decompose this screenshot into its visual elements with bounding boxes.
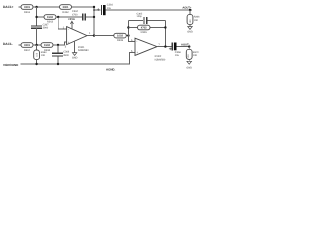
- svg-text:3900: 3900: [63, 54, 69, 57]
- wire feedback line: [56, 16, 94, 18]
- svg-text:3900: 3900: [43, 27, 49, 30]
- wire: [33, 44, 41, 46]
- resistor R370: [186, 49, 199, 59]
- op-amp IC301b: [135, 38, 166, 61]
- capacitor C365: [137, 12, 147, 24]
- svg-text:R367: R367: [24, 49, 31, 52]
- node AOUT+: [189, 9, 191, 11]
- svg-text:10K: 10K: [193, 54, 198, 57]
- svg-text:1502: 1502: [44, 44, 50, 47]
- resistor R362: [60, 5, 72, 14]
- svg-text:-: -: [68, 27, 69, 31]
- svg-text:AGND.: AGND.: [106, 68, 116, 72]
- wire: [72, 6, 95, 8]
- capacitor C368: [52, 45, 70, 64]
- node stage2 inverting junction: [127, 34, 129, 36]
- svg-text:1002: 1002: [117, 35, 123, 38]
- capacitor C364: [93, 3, 113, 15]
- wire inverting input: [58, 17, 66, 29]
- resistor R364 vertical: [34, 45, 47, 64]
- svg-text:GND: GND: [187, 31, 193, 34]
- wire: [189, 10, 191, 14]
- wire op-amp1 output: [87, 35, 94, 37]
- svg-text:R369: R369: [117, 39, 124, 42]
- wire: [177, 46, 190, 48]
- resistor R365: [138, 25, 151, 34]
- wire stage2 inverting vertical: [128, 21, 135, 42]
- capacitor C366: [169, 43, 181, 58]
- svg-text:GND: GND: [72, 57, 78, 60]
- svg-text:NJM4580: NJM4580: [78, 49, 89, 52]
- op-amp IC301a: [67, 27, 90, 52]
- svg-text:3301: 3301: [63, 6, 69, 9]
- svg-text:DAC1+: DAC1+: [3, 5, 14, 9]
- node noninverting junction: [57, 44, 59, 46]
- wire: [18, 44, 21, 46]
- ground op-amp1: [72, 41, 78, 60]
- power +5VA arrow: [68, 17, 75, 29]
- node inverting junction: [57, 16, 59, 18]
- node row2 junction: [35, 16, 37, 18]
- resistor R367: [21, 43, 33, 52]
- resistor R361: [21, 5, 33, 14]
- resistor R369: [114, 33, 127, 42]
- wire output rail top: [106, 9, 193, 11]
- resistor R368: [41, 43, 53, 52]
- ground right bottom: [186, 59, 192, 69]
- wire rail to stage2: [94, 35, 128, 37]
- wire node A vertical: [36, 7, 38, 26]
- wire: [53, 42, 67, 45]
- wire op-amp2 output: [157, 46, 172, 48]
- wire row2: [37, 16, 44, 18]
- svg-text:R362: R362: [62, 11, 69, 14]
- svg-text:+: +: [68, 41, 70, 45]
- svg-text:1502: 1502: [47, 16, 53, 19]
- node VGROUND label: [3, 63, 19, 67]
- svg-text:NJM4580: NJM4580: [155, 58, 166, 61]
- resistor R363: [44, 15, 56, 24]
- svg-text:3301: 3301: [24, 44, 30, 47]
- node A junction: [35, 6, 37, 8]
- wire feedback right vertical: [164, 21, 166, 47]
- svg-text:4700: 4700: [72, 13, 78, 16]
- svg-text:GND: GND: [186, 67, 192, 70]
- wire feedback R branch: [128, 27, 165, 29]
- node AOUT-: [188, 45, 190, 47]
- wire: [188, 47, 190, 50]
- node DAC1- input label: [3, 42, 13, 46]
- svg-text:R365: R365: [141, 31, 148, 34]
- svg-text:DAC1-: DAC1-: [3, 42, 13, 46]
- capacitor C367: [31, 23, 49, 29]
- node DAC1+ input label: [3, 5, 14, 9]
- svg-text:R363: R363: [47, 21, 54, 24]
- node C junction: [35, 44, 37, 46]
- capacitor C362: [72, 10, 85, 20]
- svg-text:3301: 3301: [24, 6, 30, 9]
- wire: [36, 28, 38, 45]
- svg-text:VGROUND: VGROUND: [3, 63, 19, 67]
- svg-text:+5VA: +5VA: [68, 17, 75, 21]
- wire: [33, 6, 60, 8]
- svg-text:10u: 10u: [175, 54, 180, 57]
- svg-text:AOUT+: AOUT+: [182, 7, 192, 10]
- svg-text:10K: 10K: [194, 19, 199, 22]
- svg-text:100p: 100p: [137, 15, 143, 18]
- svg-text:-: -: [136, 39, 137, 43]
- node output1 verticals: [93, 7, 95, 36]
- wire VGROUND rail: [21, 52, 136, 64]
- svg-text:10K: 10K: [41, 54, 46, 57]
- wire: [18, 6, 21, 8]
- svg-text:+: +: [136, 51, 138, 55]
- svg-text:4702: 4702: [141, 27, 147, 30]
- svg-text:R361: R361: [24, 11, 31, 14]
- ground right top: [187, 25, 193, 34]
- svg-text:10u: 10u: [107, 7, 112, 10]
- wire feedback cap branch: [128, 20, 165, 22]
- svg-text:AOUT-: AOUT-: [181, 43, 189, 46]
- resistor R366: [187, 14, 200, 24]
